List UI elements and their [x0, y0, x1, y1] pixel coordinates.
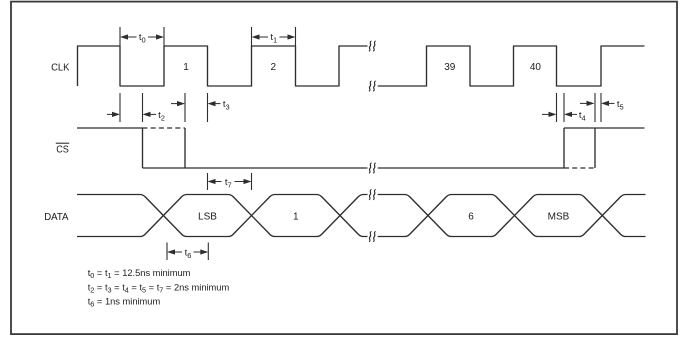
svg-text:t6 = 1ns minimum: t6 = 1ns minimum: [88, 297, 161, 309]
svg-text:CLK: CLK: [51, 61, 69, 73]
svg-text:LSB: LSB: [198, 211, 217, 222]
svg-text:DATA: DATA: [44, 211, 68, 223]
svg-text:1: 1: [293, 211, 299, 222]
svg-text:2: 2: [271, 62, 277, 73]
svg-text:40: 40: [530, 62, 542, 73]
svg-text:CS: CS: [56, 144, 69, 156]
svg-text:MSB: MSB: [548, 211, 570, 222]
svg-text:t2 = t3 = t4 = t5 = t7 = 2ns m: t2 = t3 = t4 = t5 = t7 = 2ns minimum: [88, 282, 230, 294]
svg-text:6: 6: [468, 211, 474, 222]
svg-text:1: 1: [183, 62, 189, 73]
svg-text:39: 39: [444, 62, 456, 73]
svg-text:t0 = t1 = 12.5ns minimum: t0 = t1 = 12.5ns minimum: [88, 268, 191, 280]
